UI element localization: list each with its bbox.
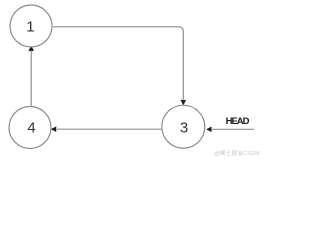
node 1 circle — [10, 5, 52, 47]
svg-text:4: 4 — [27, 119, 35, 136]
svg-text:3: 3 — [180, 120, 188, 137]
node 3 circle — [162, 105, 205, 148]
svg-text:1: 1 — [26, 19, 34, 36]
wire: HEAD pointer arrow into node 3 right side — [211, 128, 254, 130]
wire: edge from node 1 right side, rounded corner, down to node 3 — [53, 27, 184, 101]
wire: edge from node 3 left side to node 4 (leftward) — [56, 128, 162, 130]
svg-text:HEAD: HEAD — [226, 116, 250, 127]
arrowhead into node 3 top (pointing down) — [181, 100, 185, 104]
arrowhead into node 4 right side (pointing left) — [52, 127, 56, 131]
svg-text:@稀土掘金CSDN: @稀土掘金CSDN — [214, 149, 260, 157]
wire: edge from node 4 top up to node 1 bottom — [30, 50, 32, 106]
node 4 circle — [9, 107, 51, 149]
arrowhead of HEAD pointer (pointing left) — [207, 127, 211, 131]
arrowhead into node 1 bottom (pointing up) — [29, 46, 33, 50]
